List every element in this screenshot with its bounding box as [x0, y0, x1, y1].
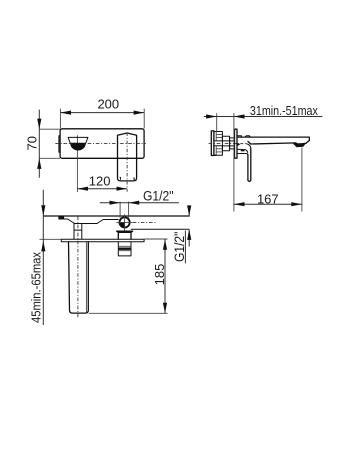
- dim 200: line and arrows: [60, 112, 144, 114]
- svg-text:70: 70: [25, 136, 40, 150]
- dim 167: line and arrows: [234, 203, 302, 205]
- dim 45min-65max: extension line at plate: [40, 238, 62, 240]
- handle column (plan): [74, 224, 82, 240]
- svg-text:167: 167: [257, 191, 279, 206]
- dim 70: line and outside arrows: [38, 110, 40, 178]
- lever upper curve: [247, 144, 251, 149]
- valve upper block: [214, 132, 223, 141]
- dim 200: extension lines: [60, 109, 144, 129]
- valve lower block: [214, 146, 223, 155]
- dim G1/2 top: line with outside arrows: [100, 202, 179, 204]
- svg-text:31min.-51max: 31min.-51max: [250, 104, 319, 118]
- back reference line: [44, 215, 189, 217]
- spout projecting from wall (plan): [69, 242, 89, 313]
- handle extension line (vertical through handle center): [76, 135, 78, 192]
- handle cup: [68, 137, 88, 150]
- valve centerline: [209, 142, 243, 144]
- cartridge circle (spout tube section): [116, 214, 155, 230]
- wall flange: [211, 131, 214, 156]
- connection block under circle: [117, 231, 133, 256]
- svg-text:45min.-65max: 45min.-65max: [29, 251, 43, 323]
- face plate (edge-on, 200 wide): [61, 239, 144, 242]
- spout (front view): [118, 133, 137, 181]
- dim 185: extension lines: [89, 239, 168, 313]
- 167: extension line right (from aerator): [301, 148, 303, 212]
- dim 31min-51max: extension line 2 (long, also for 167): [233, 113, 235, 211]
- handle/spout centerline (vertical, long): [77, 217, 79, 319]
- aerator (black): [293, 143, 306, 147]
- hidden line to lever: [240, 143, 246, 145]
- dim G1/2 top: extension lines to circle: [120, 202, 129, 218]
- handle base: [237, 149, 248, 155]
- spout side profile: [237, 137, 309, 144]
- threaded tube: [222, 141, 234, 146]
- dim 31min-51max: line with outside arrows: [204, 116, 322, 118]
- dim 31min-51max: extension line 1: [216, 113, 218, 131]
- dim 45min-65max: vertical line with outside arrows: [42, 190, 44, 325]
- spout tip notch (dark): [59, 216, 64, 219]
- body horizontal centerline: [55, 142, 146, 144]
- dim 185: line and arrows: [164, 239, 166, 313]
- flange foot: [214, 154, 216, 155]
- hex nut: [222, 136, 229, 151]
- body outline (plan): [59, 216, 119, 224]
- spout vertical centerline: [126, 132, 128, 191]
- handle base black mark: [241, 149, 245, 152]
- spout feet ticks: [120, 177, 135, 180]
- svg-text:G1/2": G1/2": [143, 189, 174, 204]
- dim 70: extension lines: [39, 129, 60, 158]
- body plate (200x70): [60, 129, 144, 159]
- body bottom edge right of cartridge: [131, 228, 189, 230]
- svg-text:200: 200: [97, 97, 119, 112]
- svg-text:185: 185: [152, 264, 167, 286]
- spout top ridges: [237, 136, 250, 137]
- svg-text:120: 120: [89, 174, 111, 189]
- wall plate (edge-on): [235, 129, 238, 158]
- lever shaft: [248, 148, 251, 181]
- dim 120: line and arrows: [77, 188, 127, 190]
- nut second section: [230, 138, 235, 149]
- dim G1/2 right (rotated): [188, 207, 190, 247]
- pivot mark (black) on centerline: [237, 143, 240, 146]
- wall clamp bracket on left edge: [59, 136, 60, 152]
